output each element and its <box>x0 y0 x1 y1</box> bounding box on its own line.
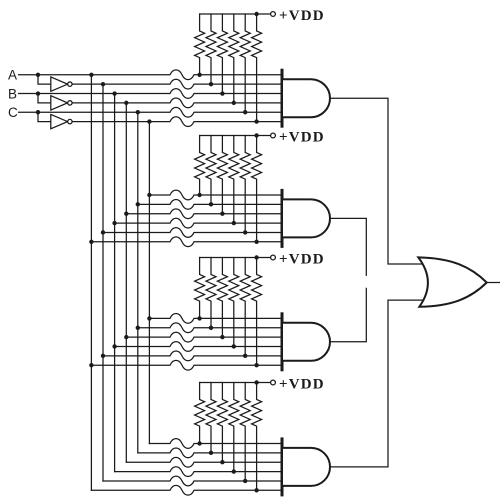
resistor R7 <box>195 136 205 196</box>
node v1 tap on row3 <box>89 363 93 367</box>
node input C junction <box>36 110 40 114</box>
node resistor R5 tap <box>243 110 247 114</box>
wire +VDD bus row3 <box>200 257 273 259</box>
AND gate G3 body <box>283 323 330 361</box>
node v6 tap on row1 <box>147 119 151 123</box>
node resistor R17 tap <box>243 354 247 358</box>
node resistor R23 tap <box>243 479 247 483</box>
node v5 tap on row3 <box>136 326 140 330</box>
node v4 tap on row3 <box>124 335 128 339</box>
node resistor R2 tap <box>209 82 213 86</box>
resistor R15 <box>217 258 227 338</box>
resistor R16 <box>229 258 239 347</box>
resistor R5 <box>240 14 250 112</box>
wire AND G2 output (broken implied connection) <box>330 218 366 275</box>
wire row3 line5 with fuse <box>103 351 282 361</box>
resistor R2 <box>206 14 216 84</box>
node v4 tap on row1 <box>124 101 128 105</box>
node v5 tap on row2 <box>136 202 140 206</box>
resistor R12 <box>252 136 262 242</box>
node v1 tap on row1 <box>89 73 93 77</box>
wire vertical column v1 (taps row1 line1, feeds rows 2-4) <box>90 75 92 491</box>
wire OR output <box>487 282 500 284</box>
node v3 tap on row1 <box>112 91 116 95</box>
node v2 tap on row1 <box>101 82 105 86</box>
node resistor R12 tap <box>254 240 258 244</box>
wire row1 line4 (B-bar line) with fuse <box>72 98 282 108</box>
svg-text:A: A <box>8 68 17 83</box>
wire row2 line3 with fuse <box>126 209 282 219</box>
wire vertical column v4 (taps row1 line4, feeds rows 2-4) <box>125 103 127 462</box>
wire inverter U3 input step <box>38 112 51 121</box>
wire AND G1 output to OR top input <box>330 98 422 264</box>
wire row4 line3 with fuse <box>126 457 282 467</box>
wire row4 line2 with fuse <box>138 448 282 458</box>
wire row3 line2 with fuse <box>138 323 282 333</box>
wire row1 line6 (C-bar line) with fuse <box>72 117 282 127</box>
node resistor R14 tap <box>209 326 213 330</box>
svg-text:B: B <box>8 86 17 101</box>
svg-text:+VDD: +VDD <box>279 129 325 145</box>
inverter U3 <box>51 114 68 128</box>
power terminal +VDD row1 <box>271 12 276 17</box>
wire inverter U1 input step <box>38 75 51 84</box>
node v4 tap on row2 <box>124 212 128 216</box>
resistor R19 <box>195 383 205 444</box>
resistor R24 <box>252 383 262 491</box>
node resistor R20 tap <box>209 451 213 455</box>
resistor R10 <box>229 136 239 224</box>
node resistor R4 tap <box>232 101 236 105</box>
node v5 tap on row1 <box>136 110 140 114</box>
wire vertical column v5 (taps row1 line5, feeds rows 2-4) <box>137 112 139 453</box>
resistor R6 <box>252 14 262 122</box>
node resistor R3 tap <box>220 91 224 95</box>
wire row1 line1 (A true line) with fuse <box>19 70 282 80</box>
AND gate G4 body <box>283 448 330 486</box>
wire row4 line4 with fuse <box>115 467 282 477</box>
resistor R3 <box>217 14 227 94</box>
node resistor R11 tap <box>243 230 247 234</box>
wire row2 line1 with fuse <box>149 190 282 200</box>
resistor R20 <box>206 383 216 453</box>
resistor R1 <box>195 14 205 75</box>
node v1 tap on row2 <box>89 240 93 244</box>
resistor R23 <box>240 383 250 481</box>
wire inverter U2 input step <box>38 94 51 103</box>
wire row1 line3 (B true line) with fuse <box>19 89 282 99</box>
node input B junction <box>36 91 40 95</box>
resistor R14 <box>206 258 216 328</box>
node bus junction row2 <box>254 133 258 137</box>
resistor R9 <box>217 136 227 214</box>
svg-text:+VDD: +VDD <box>279 251 325 267</box>
node resistor R16 tap <box>232 344 236 348</box>
wire row4 line1 with fuse <box>149 439 282 449</box>
node bus junction row4 <box>254 380 258 384</box>
wire row1 line2 (A-bar line) with fuse <box>72 79 282 89</box>
wire vertical column v6 (taps row1 line6, feeds rows 2-4) <box>148 122 150 444</box>
wire +VDD bus row1 <box>200 13 273 15</box>
node resistor R6 tap <box>254 119 258 123</box>
node bus junction row3 <box>254 255 258 259</box>
node resistor R15 tap <box>220 335 224 339</box>
node v3 tap on row3 <box>112 344 116 348</box>
node v3 tap on row2 <box>112 221 116 225</box>
node resistor R19 tap <box>197 441 201 445</box>
node v2 tap on row3 <box>101 354 105 358</box>
wire row3 line3 with fuse <box>126 332 282 342</box>
wire row4 line6 with fuse <box>91 485 282 495</box>
wire row4 line5 with fuse <box>103 476 282 486</box>
wire row2 line4 with fuse <box>115 218 282 228</box>
node resistor R1 tap <box>197 73 201 77</box>
node v6 tap on row2 <box>147 193 151 197</box>
wire vertical column v3 (taps row1 line3, feeds rows 2-4) <box>114 94 116 472</box>
wire +VDD bus row2 <box>200 135 273 137</box>
node resistor R9 tap <box>220 212 224 216</box>
wire AND G3 output (broken implied connection) <box>330 288 366 341</box>
wire row3 line1 with fuse <box>149 314 282 324</box>
resistor R21 <box>217 383 227 463</box>
svg-text:C: C <box>8 105 18 120</box>
wire row2 line5 with fuse <box>103 228 282 238</box>
and-gate G1 input bar <box>281 70 284 126</box>
inverter U1 <box>51 77 68 91</box>
node v2 tap on row2 <box>101 230 105 234</box>
node v6 tap on row3 <box>147 316 151 320</box>
and-gate G2 input bar <box>281 190 284 246</box>
AND gate G2 body <box>283 199 330 237</box>
wire row3 line6 with fuse <box>91 360 282 370</box>
and-gate G4 input bar <box>281 439 284 495</box>
power terminal +VDD row2 <box>271 133 276 138</box>
wire row2 line2 with fuse <box>138 199 282 209</box>
node input A junction <box>36 73 40 77</box>
svg-text:+VDD: +VDD <box>279 8 325 24</box>
node resistor R21 tap <box>220 460 224 464</box>
resistor R22 <box>229 383 239 472</box>
or-gate U4 <box>418 257 486 306</box>
resistor R18 <box>252 258 262 366</box>
node resistor R10 tap <box>232 221 236 225</box>
node resistor R22 tap <box>232 469 236 473</box>
wire row3 line4 with fuse <box>115 342 282 352</box>
wire row1 line5 (C true line) with fuse <box>19 107 282 117</box>
svg-text:+VDD: +VDD <box>279 376 325 392</box>
node resistor R7 tap <box>197 193 201 197</box>
power terminal +VDD row4 <box>271 380 276 385</box>
node resistor R13 tap <box>197 316 201 320</box>
wire vertical column v2 (taps row1 line2, feeds rows 2-4) <box>102 84 104 481</box>
AND gate G1 body <box>283 79 330 117</box>
node bus junction row1 <box>254 12 258 16</box>
node resistor R8 tap <box>209 202 213 206</box>
node resistor R18 tap <box>254 363 258 367</box>
resistor R13 <box>195 258 205 319</box>
and-gate G3 input bar <box>281 314 284 370</box>
power terminal +VDD row3 <box>271 255 276 260</box>
resistor R11 <box>240 136 250 233</box>
resistor R8 <box>206 136 216 205</box>
wire AND G4 output to OR bottom input <box>330 300 422 467</box>
node resistor R24 tap <box>254 488 258 492</box>
wire row2 line6 with fuse <box>91 237 282 247</box>
resistor R17 <box>240 258 250 356</box>
wire +VDD bus row4 <box>200 382 273 384</box>
resistor R4 <box>229 14 239 103</box>
inverter U2 <box>51 96 68 110</box>
